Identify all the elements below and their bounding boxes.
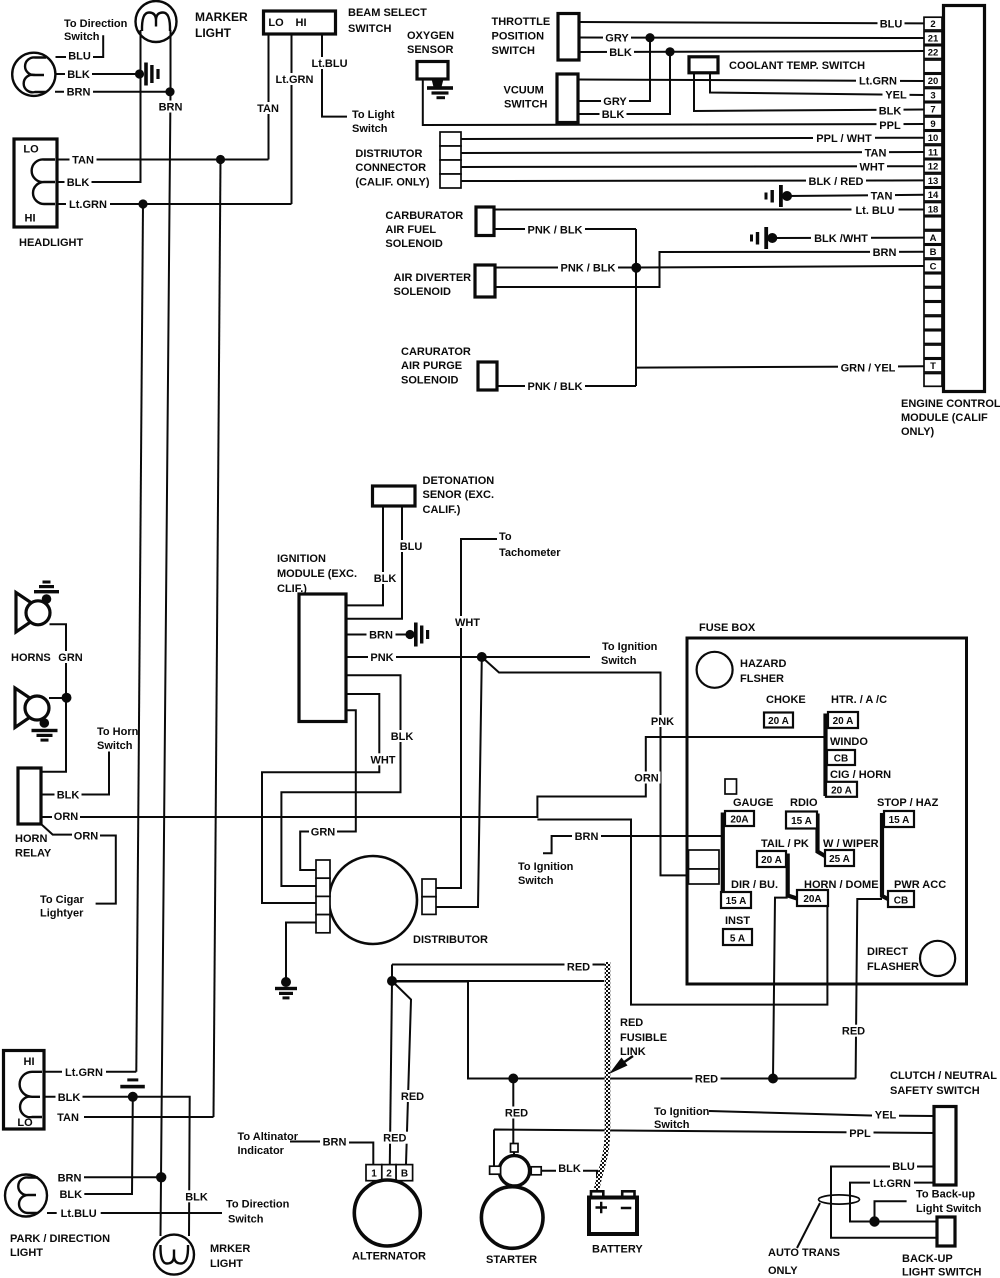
svg-text:FLASHER: FLASHER — [867, 961, 919, 973]
svg-text:DIRECT: DIRECT — [867, 946, 908, 958]
ground BLK/WHT pin A (bars+dot) — [750, 235, 753, 242]
svg-text:WHT: WHT — [455, 617, 480, 629]
ground module BRN (dot+bars) — [405, 630, 414, 639]
svg-text:SWITCH: SWITCH — [504, 99, 547, 111]
wire park/dir BRN to marker junction — [55, 91, 167, 93]
svg-text:BLK /WHT: BLK /WHT — [814, 233, 868, 245]
wire beam select Lt.GRN vertical — [291, 34, 293, 204]
svg-text:SWITCH: SWITCH — [348, 23, 391, 35]
svg-text:AIR PURGE: AIR PURGE — [401, 360, 462, 372]
node BRN marker junction — [165, 87, 174, 96]
svg-text:TAN: TAN — [57, 1112, 79, 1124]
svg-text:BLK / RED: BLK / RED — [809, 176, 864, 188]
svg-text:OXYGEN: OXYGEN — [407, 30, 454, 42]
svg-text:HI: HI — [25, 213, 36, 225]
svg-text:Lt.BLU: Lt.BLU — [61, 1208, 97, 1220]
wire coolant temp BLK to ECM pin 7 — [694, 73, 924, 111]
svg-text:25 A: 25 A — [829, 854, 850, 865]
svg-text:CHOKE: CHOKE — [766, 694, 806, 706]
fuse CHOKE 20A — [764, 713, 793, 728]
svg-text:BACK-UP: BACK-UP — [902, 1253, 953, 1265]
fuse value texts — [726, 716, 910, 944]
svg-text:YEL: YEL — [885, 90, 907, 102]
ECM body (engine control module calif only) — [944, 6, 985, 392]
svg-text:Switch: Switch — [64, 31, 100, 43]
svg-text:A: A — [930, 233, 937, 244]
svg-text:GRN: GRN — [58, 652, 83, 664]
svg-text:Lightyer: Lightyer — [40, 908, 84, 920]
wire park/dir BLK to ground — [56, 73, 136, 75]
svg-text:To Direction: To Direction — [226, 1199, 290, 1211]
svg-text:TAN: TAN — [257, 103, 279, 115]
wire RED tail/pk tap down — [773, 898, 788, 1079]
wire clutch switch Lt.GRN to backup junction — [850, 1183, 937, 1222]
svg-text:MODULE (CALIF: MODULE (CALIF — [901, 412, 988, 424]
svg-text:To Light: To Light — [352, 109, 395, 121]
svg-text:Switch: Switch — [228, 1214, 264, 1226]
svg-text:BRN: BRN — [159, 102, 183, 114]
wire TAN long vertical V4 — [214, 160, 221, 1118]
fuse HORN/DOME 20A — [797, 890, 828, 906]
carburator air fuel solenoid — [476, 207, 494, 236]
svg-text:PNK / BLK: PNK / BLK — [528, 381, 583, 393]
svg-text:CARURATOR: CARURATOR — [401, 346, 471, 358]
wire carb air fuel PNK/BLK — [494, 228, 636, 230]
park/direction light top (bulb) — [12, 53, 55, 96]
svg-text:DETONATION: DETONATION — [423, 475, 495, 487]
wire headlight TAN to beam select LO — [57, 159, 269, 161]
svg-text:Tachometer: Tachometer — [499, 547, 561, 559]
svg-text:Lt.BLU: Lt.BLU — [311, 58, 347, 70]
wire pointer to back-up light switch — [875, 1201, 907, 1221]
wire headlight2 Lt.GRN from V2 — [44, 1071, 136, 1073]
svg-text:LIGHT: LIGHT — [195, 26, 232, 40]
svg-text:PNK: PNK — [370, 652, 393, 664]
svg-text:HTR. / A /C: HTR. / A /C — [831, 694, 887, 706]
svg-text:STARTER: STARTER — [486, 1254, 537, 1266]
distributor left connector (4 cells) — [316, 860, 330, 878]
node RED junction starter — [508, 1074, 518, 1084]
svg-text:11: 11 — [928, 147, 939, 158]
horn 2 — [15, 688, 44, 728]
svg-text:Switch: Switch — [518, 875, 554, 887]
svg-text:BRN: BRN — [369, 630, 393, 642]
wire module WHT to distributor — [262, 694, 379, 903]
svg-text:STOP / HAZ: STOP / HAZ — [877, 797, 939, 809]
node TAN junction — [216, 155, 225, 164]
svg-text:ENGINE CONTROL: ENGINE CONTROL — [901, 398, 1000, 410]
svg-text:C: C — [930, 261, 937, 272]
starter S terminal square — [511, 1144, 519, 1153]
svg-text:HAZARD: HAZARD — [740, 658, 786, 670]
svg-text:TAN: TAN — [865, 148, 887, 160]
beam select switch — [264, 11, 336, 34]
svg-text:(CALIF. ONLY): (CALIF. ONLY) — [355, 177, 429, 189]
svg-text:BRN: BRN — [323, 1137, 347, 1149]
svg-text:LO: LO — [268, 17, 284, 29]
wire carb air fuel solenoid Lt.BLU to pin 18 — [494, 209, 924, 211]
node BLK junction — [665, 47, 674, 56]
svg-text:To Ignition: To Ignition — [602, 641, 658, 653]
battery posts — [591, 1191, 603, 1198]
throttle position switch — [558, 14, 579, 61]
ground horn2 (dot+bars down) — [40, 718, 50, 728]
svg-text:CONNECTOR: CONNECTOR — [355, 162, 426, 174]
bus bar TAIL/PK to horn/dome — [788, 854, 797, 899]
svg-text:5 A: 5 A — [730, 933, 745, 944]
svg-text:SENOR (EXC.: SENOR (EXC. — [423, 489, 495, 501]
ignition module — [299, 594, 346, 722]
svg-text:Lt.GRN: Lt.GRN — [65, 1067, 103, 1079]
svg-text:RELAY: RELAY — [15, 848, 52, 860]
svg-text:VCUUM: VCUUM — [504, 85, 544, 97]
node RED junction right — [768, 1074, 778, 1084]
fuse W/WIPER 25A — [825, 850, 854, 866]
fuse INST 5A — [723, 929, 752, 945]
svg-text:Indicator: Indicator — [238, 1145, 285, 1157]
svg-text:To Horn: To Horn — [97, 726, 139, 738]
hazard flasher circle — [697, 652, 733, 688]
bus bar HTR/A-C column — [823, 714, 827, 797]
bus bar RADIO to wiper — [818, 814, 826, 857]
svg-text:BLK: BLK — [374, 573, 397, 585]
wire BRN to alternator 1 — [346, 1143, 373, 1165]
wire RED top to fusible link — [392, 965, 604, 982]
svg-text:CARBURATOR: CARBURATOR — [385, 210, 463, 222]
wire distributor BRN to ground — [286, 923, 316, 979]
svg-text:To Ignition: To Ignition — [654, 1106, 710, 1118]
wire horn relay BLK to horn switch — [41, 752, 109, 795]
ECM pin number texts — [928, 19, 939, 372]
svg-text:RED: RED — [620, 1017, 643, 1029]
svg-text:To Ignition: To Ignition — [518, 861, 574, 873]
svg-text:BLU: BLU — [68, 51, 91, 63]
svg-text:RED: RED — [842, 1026, 865, 1038]
svg-text:TAIL / PK: TAIL / PK — [761, 838, 809, 850]
wire BRN to ignition switch / gauge fuse — [543, 836, 723, 853]
svg-text:BLK: BLK — [67, 69, 90, 81]
svg-text:RED: RED — [567, 962, 590, 974]
svg-text:LO: LO — [23, 144, 39, 156]
svg-text:12: 12 — [928, 162, 939, 173]
svg-text:RED: RED — [401, 1091, 424, 1103]
svg-text:LO: LO — [17, 1117, 33, 1129]
svg-text:FUSE BOX: FUSE BOX — [699, 622, 756, 634]
svg-text:HORN / DOME: HORN / DOME — [804, 879, 879, 891]
wire RED main horizontal — [392, 982, 856, 1079]
svg-text:15 A: 15 A — [889, 815, 910, 826]
node backup Lt.GRN junction — [869, 1216, 879, 1226]
svg-text:AIR DIVERTER: AIR DIVERTER — [394, 272, 472, 284]
svg-text:SOLENOID: SOLENOID — [385, 238, 443, 250]
svg-text:15 A: 15 A — [726, 896, 747, 907]
air diverter solenoid — [475, 265, 495, 297]
svg-text:WHT: WHT — [370, 754, 395, 766]
wire vacuum switch GRY — [578, 38, 650, 101]
svg-text:THROTTLE: THROTTLE — [492, 16, 551, 28]
svg-text:To: To — [499, 531, 512, 543]
distributor right connector (2 cells) — [422, 879, 436, 897]
svg-text:BLK: BLK — [609, 47, 632, 59]
wire horn2 lead to GRN junction — [49, 697, 66, 699]
svg-text:BLK: BLK — [185, 1191, 208, 1203]
carburator air purge solenoid — [478, 362, 497, 390]
horn 1 — [16, 593, 45, 633]
node PNK junction — [477, 652, 487, 662]
svg-text:PNK / BLK: PNK / BLK — [561, 263, 616, 275]
wire RED to starter S terminal — [512, 1079, 514, 1144]
svg-text:Lt.GRN: Lt.GRN — [873, 1178, 911, 1190]
wire air diverter to ECM pin B (BRN) — [495, 252, 924, 287]
svg-text:BLK: BLK — [58, 1092, 81, 1104]
wire horn relay ORN to fuse box (jogs) — [41, 737, 826, 817]
wire RED to alternator B — [392, 981, 411, 1164]
fuse HTR 20A — [828, 712, 858, 728]
svg-text:BLK: BLK — [558, 1163, 581, 1175]
wire PPL to starter terminal — [494, 1130, 935, 1167]
marker light bottom (bulb) — [154, 1235, 194, 1275]
fuse GAUGE 20A — [725, 811, 754, 826]
svg-text:To Altinator: To Altinator — [238, 1131, 299, 1143]
svg-text:MRKER: MRKER — [210, 1243, 250, 1255]
clutch/neutral safety switch — [934, 1107, 956, 1186]
svg-text:HORN: HORN — [15, 833, 47, 845]
svg-text:YEL: YEL — [875, 1110, 897, 1122]
ground marker/park BLK (dot+bars) — [135, 69, 144, 78]
svg-text:GAUGE: GAUGE — [733, 797, 773, 809]
svg-text:HI: HI — [24, 1056, 35, 1068]
node horns GRN junction — [62, 693, 72, 703]
svg-text:LIGHT: LIGHT — [10, 1247, 43, 1259]
svg-text:GRN: GRN — [311, 827, 336, 839]
svg-text:INST: INST — [725, 915, 750, 927]
direct flasher circle — [920, 941, 955, 976]
svg-text:RED: RED — [695, 1074, 718, 1086]
fuse CIG/HORN 20A — [826, 782, 857, 797]
svg-text:10: 10 — [928, 133, 939, 144]
fuse STOP/HAZ 15A — [884, 811, 914, 827]
svg-text:Lt. BLU: Lt. BLU — [855, 205, 894, 217]
wire BLK/WHT to ECM pin A — [772, 237, 924, 239]
svg-text:ONLY): ONLY) — [901, 426, 935, 438]
wire module BLK to distributor — [281, 675, 400, 886]
svg-text:ORN: ORN — [74, 831, 99, 843]
svg-text:ONLY: ONLY — [768, 1265, 798, 1277]
horn relay — [18, 768, 41, 824]
svg-text:BLK: BLK — [602, 109, 625, 121]
wire PNK to fuse box — [482, 657, 687, 875]
svg-text:IGNITION: IGNITION — [277, 553, 326, 565]
svg-text:DISTRIUTOR: DISTRIUTOR — [355, 148, 422, 160]
starter solenoid — [499, 1156, 529, 1186]
svg-text:20 A: 20 A — [768, 716, 789, 727]
wire TPS BLU to ECM pin 2 — [579, 22, 924, 23]
marker light top (bulb) — [136, 1, 177, 42]
ECM connector pins column — [924, 17, 942, 386]
svg-text:PNK / BLK: PNK / BLK — [528, 225, 583, 237]
ground TAN pin14 (bars+dot) — [765, 193, 768, 200]
svg-text:LINK: LINK — [620, 1046, 646, 1058]
bus bar STOP/HAZ to pwr acc — [882, 813, 888, 899]
breaker PWR ACC CB — [888, 891, 914, 907]
bus bar GAUGE column — [721, 813, 725, 905]
svg-text:PPL / WHT: PPL / WHT — [816, 133, 872, 145]
fuse box outline — [687, 638, 967, 984]
svg-text:3: 3 — [930, 90, 935, 101]
starter body — [481, 1187, 543, 1249]
svg-text:AIR FUEL: AIR FUEL — [385, 224, 436, 236]
alternator terminals 1 2 B — [366, 1165, 382, 1181]
svg-text:Light Switch: Light Switch — [916, 1203, 982, 1215]
arrow fusible link pointer — [620, 1056, 633, 1065]
svg-text:B: B — [930, 247, 937, 258]
node Lt.GRN junction — [138, 199, 147, 208]
node RED alternator junction — [387, 976, 397, 986]
ellipse auto trans marker — [819, 1195, 860, 1204]
wire headlight2 TAN from V4 — [84, 1116, 214, 1118]
svg-text:LIGHT: LIGHT — [210, 1258, 243, 1270]
alternator body — [354, 1180, 420, 1246]
svg-text:RDIO: RDIO — [790, 797, 818, 809]
wire RED to alternator 2 — [390, 981, 392, 1164]
fuse RADIO 15A — [786, 812, 817, 829]
svg-text:Lt.GRN: Lt.GRN — [69, 199, 107, 211]
svg-text:HI: HI — [296, 17, 307, 29]
wire beam select Lt.BLU to light switch — [322, 34, 347, 117]
svg-text:20 A: 20 A — [831, 785, 852, 796]
wire park2 BRN to V3 — [84, 1176, 161, 1178]
distributor connector calif (4 pin) — [440, 132, 461, 146]
svg-text:BLK: BLK — [67, 177, 90, 189]
svg-text:20A: 20A — [730, 815, 748, 826]
headlight top (connector) — [14, 139, 57, 227]
svg-text:WHT: WHT — [859, 162, 884, 174]
wire distributor connector PPL/WHT to pin 10 — [461, 138, 924, 139]
wire ORN branch to horn/dome fuse — [537, 820, 827, 1005]
wire marker light right lead = BRN long vertical V3 — [161, 30, 171, 1236]
ground distributor BRN (dot+bars) — [281, 977, 291, 987]
distributor body — [329, 856, 417, 944]
wire clutch switch BLU to backup switch — [831, 1167, 937, 1238]
svg-text:BATTERY: BATTERY — [592, 1244, 643, 1256]
svg-text:WINDO: WINDO — [830, 736, 868, 748]
starter right terminal — [531, 1167, 541, 1175]
starter left terminal — [490, 1166, 501, 1174]
svg-text:SENSOR: SENSOR — [407, 44, 454, 56]
svg-text:Switch: Switch — [352, 123, 388, 135]
svg-text:BLK: BLK — [879, 106, 902, 118]
node BRN junction bottom — [156, 1172, 166, 1182]
svg-text:CB: CB — [834, 754, 848, 765]
fuse TAIL/PK 20A — [757, 851, 786, 867]
fuse DIR/BU 15A — [721, 892, 751, 908]
svg-text:Lt.GRN: Lt.GRN — [859, 76, 897, 88]
svg-text:POSITION: POSITION — [492, 31, 545, 43]
wire oxygen sensor PPL to ECM pin 9 — [423, 79, 924, 125]
svg-text:BLU: BLU — [892, 1161, 915, 1173]
svg-text:15 A: 15 A — [791, 816, 812, 827]
wire headlight Lt.GRN to beam select — [57, 203, 292, 205]
svg-text:BLK: BLK — [59, 1189, 82, 1201]
svg-text:CIG / HORN: CIG / HORN — [830, 769, 891, 781]
wire horn1 GRN lead — [41, 624, 66, 772]
svg-text:T: T — [930, 361, 936, 372]
svg-text:PNK: PNK — [651, 716, 674, 728]
detonation sensor — [373, 486, 416, 506]
wire vacuum switch Lt.GRN to ECM pin 20 — [578, 80, 924, 82]
coolant temp switch — [689, 57, 718, 73]
breaker WINDO CB — [827, 750, 855, 765]
svg-text:BLK: BLK — [57, 790, 80, 802]
svg-text:Switch: Switch — [654, 1119, 690, 1131]
svg-text:Switch: Switch — [97, 740, 133, 752]
svg-text:MARKER: MARKER — [195, 10, 248, 24]
wire WHT distributor to tachometer — [436, 539, 497, 888]
svg-text:TAN: TAN — [72, 155, 94, 167]
wire starter BLK to battery — [541, 1171, 597, 1188]
wire distributor connector WHT to pin 12 — [461, 165, 924, 168]
wire PNK junction down to distributor — [436, 657, 482, 907]
wire park2 BLK up to ground — [84, 1097, 133, 1194]
wire PNK/BLK vertical — [635, 229, 637, 386]
svg-text:PARK / DIRECTION: PARK / DIRECTION — [10, 1233, 110, 1245]
svg-text:GRY: GRY — [603, 96, 627, 108]
svg-text:14: 14 — [928, 190, 939, 201]
wire TPS GRY to ECM pin 21 — [579, 37, 924, 40]
wire horn relay ORN2 to cigar lighter — [41, 824, 116, 904]
svg-text:CLIF.): CLIF.) — [277, 583, 307, 595]
svg-text:PPL: PPL — [879, 120, 901, 132]
svg-text:SAFETY SWITCH: SAFETY SWITCH — [890, 1085, 980, 1097]
wire headlight2 BLK to marker2 — [44, 1097, 190, 1236]
svg-text:PPL: PPL — [849, 1128, 871, 1140]
svg-text:W / WIPER: W / WIPER — [823, 838, 879, 850]
svg-text:ORN: ORN — [54, 811, 79, 823]
svg-text:DIR / BU.: DIR / BU. — [731, 879, 778, 891]
svg-text:BRN: BRN — [873, 247, 897, 259]
svg-text:FUSIBLE: FUSIBLE — [620, 1032, 667, 1044]
svg-text:BEAM SELECT: BEAM SELECT — [348, 7, 427, 19]
svg-text:GRN / YEL: GRN / YEL — [841, 363, 896, 375]
svg-text:HORNS: HORNS — [11, 652, 51, 664]
wire TPS BLK to ECM pin 22 — [579, 51, 924, 52]
svg-text:COOLANT TEMP. SWITCH: COOLANT TEMP. SWITCH — [729, 60, 865, 72]
wire detonation sensor BLU to ignition module — [346, 506, 402, 619]
wire park/dir BLU to direction switch — [56, 35, 104, 57]
wire YEL to clutch switch — [709, 1111, 935, 1116]
svg-text:PWR ACC: PWR ACC — [894, 879, 946, 891]
svg-text:BLU: BLU — [880, 19, 903, 31]
alternator terminal texts — [371, 1169, 408, 1180]
svg-text:2: 2 — [930, 19, 935, 30]
svg-text:SOLENOID: SOLENOID — [394, 286, 452, 298]
wire TAN to ECM pin 14 — [787, 195, 924, 196]
svg-text:BLU: BLU — [400, 541, 423, 553]
wire module GRN to distributor — [300, 710, 356, 870]
svg-text:13: 13 — [928, 176, 939, 187]
svg-text:To Cigar: To Cigar — [40, 894, 85, 906]
svg-text:20: 20 — [928, 76, 939, 87]
wire distributor connector BLK/RED to pin 13 — [461, 179, 924, 182]
wire module PNK to junction and ignition switch — [346, 656, 590, 658]
wire distributor connector TAN to pin 11 — [461, 152, 924, 153]
svg-text:To Back-up: To Back-up — [916, 1189, 975, 1201]
svg-text:To Direction: To Direction — [64, 18, 128, 30]
svg-text:20 A: 20 A — [761, 855, 782, 866]
small empty box in fuse box — [725, 779, 737, 794]
svg-text:CLUTCH / NEUTRAL: CLUTCH / NEUTRAL — [890, 1070, 997, 1082]
svg-text:CB: CB — [894, 895, 908, 906]
